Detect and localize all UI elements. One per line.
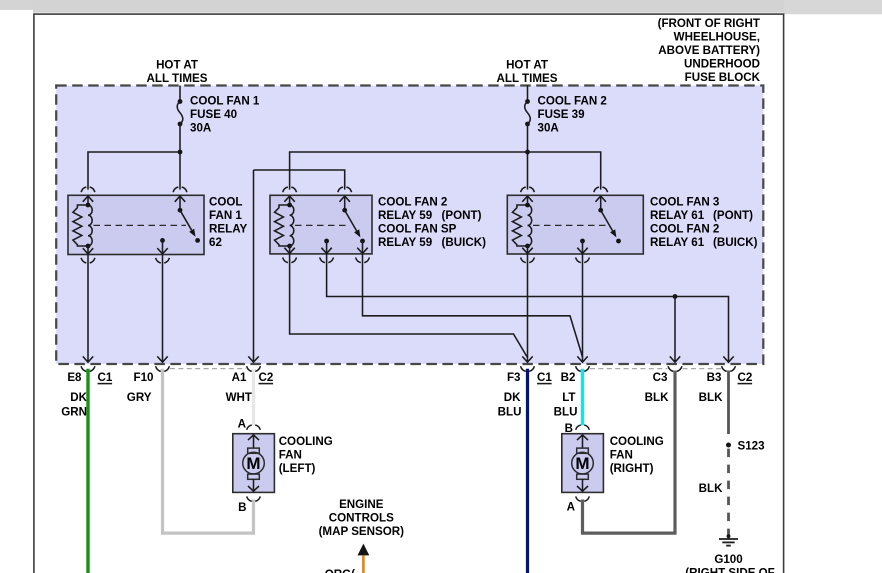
- svg-text:COOL: COOL: [209, 196, 243, 209]
- svg-text:ENGINE: ENGINE: [339, 498, 384, 511]
- svg-text:30A: 30A: [538, 121, 560, 134]
- wire relay62 contact to F10: [162, 240, 164, 362]
- svg-text:M: M: [575, 454, 589, 473]
- motor M1 cooling fan left: [233, 434, 275, 493]
- relay61 coil pin top: [521, 187, 526, 192]
- relay61 coil: [512, 205, 527, 246]
- svg-text:B: B: [565, 422, 573, 435]
- svg-text:62: 62: [209, 236, 222, 249]
- wire BLK from right fan A to C3: [583, 371, 676, 534]
- node S123: [726, 443, 731, 448]
- wire relay59 coil to F3: [290, 246, 528, 358]
- relay59 common pin top: [338, 187, 343, 192]
- wire DK BLU from F3: [526, 369, 529, 573]
- node fuse39 junction: [525, 150, 530, 155]
- svg-text:S123: S123: [738, 439, 766, 452]
- svg-text:FAN: FAN: [279, 448, 302, 461]
- svg-text:FUSE 40: FUSE 40: [190, 108, 237, 121]
- svg-text:RELAY 59: RELAY 59: [378, 209, 433, 222]
- relay59 NC contact node: [324, 239, 329, 244]
- svg-text:FUSE 39: FUSE 39: [538, 108, 586, 121]
- terminal C3 connector: [668, 366, 673, 371]
- svg-text:RELAY 61: RELAY 61: [650, 209, 705, 222]
- svg-text:UNDERHOOD: UNDERHOOD: [684, 57, 760, 70]
- svg-text:BLU: BLU: [498, 405, 522, 418]
- svg-text:C1: C1: [98, 371, 113, 384]
- svg-text:COOL FAN 2: COOL FAN 2: [538, 95, 607, 108]
- svg-text:HOT AT: HOT AT: [506, 59, 548, 72]
- svg-text:G100: G100: [714, 553, 742, 566]
- svg-text:(RIGHT): (RIGHT): [610, 462, 654, 475]
- wire DK GRN from E8: [86, 369, 89, 573]
- relay61 common pin top: [594, 187, 599, 192]
- svg-text:GRY: GRY: [127, 391, 152, 404]
- wire fuse39 branch to relay59 coil: [290, 152, 528, 190]
- fuse F39 COOL FAN 2 FUSE 39 30A: [525, 99, 530, 104]
- terminal A1 connector: [247, 366, 252, 371]
- svg-text:COOL FAN 1: COOL FAN 1: [190, 95, 260, 108]
- svg-text:BLK: BLK: [699, 482, 723, 495]
- relay59 coil pin top: [283, 187, 288, 192]
- svg-text:FAN: FAN: [610, 448, 633, 461]
- relay62 coil pin top: [81, 187, 86, 192]
- wire LT BLU from B2 to right fan B: [581, 369, 584, 426]
- svg-text:RELAY 61: RELAY 61: [650, 236, 705, 249]
- relay59 coil: [275, 205, 290, 246]
- svg-text:ABOVE BATTERY): ABOVE BATTERY): [658, 44, 760, 57]
- connector C2 dashed grouping line (right): [590, 368, 668, 370]
- svg-text:C2: C2: [738, 371, 753, 384]
- arrow to engine controls: [358, 544, 370, 556]
- svg-text:COOL FAN 2: COOL FAN 2: [650, 222, 719, 235]
- svg-text:LT: LT: [562, 391, 575, 404]
- svg-text:DK: DK: [70, 391, 87, 404]
- svg-text:BLU: BLU: [554, 405, 578, 418]
- svg-text:(PONT): (PONT): [713, 209, 753, 222]
- relay62 NC contact node: [160, 238, 165, 243]
- terminal B3 connector: [722, 366, 727, 371]
- svg-text:F3: F3: [507, 371, 521, 384]
- svg-text:30A: 30A: [190, 121, 212, 134]
- wire A1 riser: [253, 170, 255, 362]
- wire relay61 contact to B2: [582, 241, 584, 362]
- svg-text:(BUICK): (BUICK): [442, 236, 487, 249]
- ground G100: [727, 534, 731, 538]
- svg-text:DK: DK: [504, 391, 521, 404]
- wire BLK from B3 to S123: [727, 371, 730, 435]
- left fan pin B connector: [247, 496, 252, 501]
- svg-text:(RIGHT SIDE OF: (RIGHT SIDE OF: [685, 566, 775, 573]
- wire fuse39 to relay61 coil: [527, 124, 529, 190]
- svg-text:A1: A1: [232, 371, 247, 384]
- relay62 switch: [178, 208, 183, 213]
- svg-text:(MAP SENSOR): (MAP SENSOR): [319, 525, 405, 538]
- svg-text:ORG(: ORG(: [325, 568, 355, 573]
- terminal B2 connector: [576, 366, 581, 371]
- svg-text:(PONT): (PONT): [442, 209, 482, 222]
- svg-text:A: A: [238, 418, 247, 431]
- svg-text:CONTROLS: CONTROLS: [329, 512, 394, 525]
- wire relay59 NO to B2: [363, 241, 583, 357]
- svg-text:COOL FAN SP: COOL FAN SP: [378, 222, 457, 235]
- svg-text:(FRONT OF RIGHT: (FRONT OF RIGHT: [658, 17, 760, 30]
- connector C2 dashed grouping line (left): [170, 368, 246, 370]
- relay61 mech dashed link: [533, 224, 606, 226]
- svg-text:FAN 1: FAN 1: [209, 209, 242, 222]
- svg-text:COOLING: COOLING: [610, 435, 664, 448]
- wire fuse39 branch to relay61 common: [528, 152, 601, 190]
- svg-text:RELAY 59: RELAY 59: [378, 236, 433, 249]
- svg-text:(BUICK): (BUICK): [713, 236, 758, 249]
- wire fuse 40 feed: [179, 86, 181, 100]
- relay59 switch: [342, 208, 347, 213]
- svg-text:HOT AT: HOT AT: [156, 59, 198, 72]
- wire fuse40 branch to relay62 coil: [88, 152, 180, 190]
- svg-text:C1: C1: [537, 371, 552, 384]
- svg-text:WHT: WHT: [226, 391, 252, 404]
- wire to B3: [723, 356, 733, 362]
- svg-text:ALL TIMES: ALL TIMES: [497, 72, 558, 85]
- svg-text:B3: B3: [707, 371, 722, 384]
- svg-text:WHEELHOUSE,: WHEELHOUSE,: [674, 31, 760, 44]
- browser chrome top bar: [0, 0, 882, 10]
- wire GRY from F10 to left fan B: [163, 369, 254, 533]
- svg-text:F10: F10: [134, 371, 154, 384]
- node fuse40 junction: [178, 150, 183, 155]
- wire fuse 39 feed: [527, 86, 529, 100]
- relay62 coil: [73, 205, 88, 246]
- relay62 mech dashed link: [94, 224, 187, 226]
- underhood fuse block (dashed box): [56, 86, 763, 365]
- wire WHT from A1 to left fan A: [252, 369, 255, 426]
- wire to C3: [674, 297, 676, 363]
- node C3 branch junction: [673, 294, 678, 299]
- svg-text:E8: E8: [67, 371, 82, 384]
- svg-text:FUSE BLOCK: FUSE BLOCK: [685, 71, 761, 84]
- wire relay61 coil to F3: [527, 246, 529, 362]
- svg-text:C2: C2: [259, 371, 274, 384]
- svg-text:RELAY: RELAY: [209, 222, 247, 235]
- relay 61 box: [507, 195, 643, 254]
- wire fuse40 to relay62 common: [179, 124, 181, 190]
- wire BLK dashed from S123 to G100: [727, 449, 730, 535]
- svg-text:M: M: [246, 454, 260, 473]
- wire relay62 coil to E8: [87, 246, 89, 362]
- motor M2 cooling fan right: [562, 434, 604, 493]
- relay61 switch: [598, 208, 603, 213]
- svg-text:B: B: [238, 501, 246, 514]
- svg-text:A: A: [567, 501, 576, 514]
- wire A1 riser to relay59 common: [254, 170, 345, 190]
- terminal F10 connector: [156, 366, 161, 371]
- svg-text:(LEFT): (LEFT): [279, 462, 316, 475]
- svg-text:BLK: BLK: [699, 391, 723, 404]
- wire ORG to MAP sensor: [362, 555, 365, 573]
- svg-text:COOL FAN 3: COOL FAN 3: [650, 196, 720, 209]
- wire relay59 contact bus to C3 and B3: [327, 241, 729, 362]
- relay 62 box: [68, 195, 204, 254]
- terminal F3 connector: [521, 366, 526, 371]
- terminal E8 connector: [81, 366, 86, 371]
- svg-text:ALL TIMES: ALL TIMES: [147, 72, 208, 85]
- svg-text:GRN: GRN: [61, 405, 87, 418]
- svg-text:COOLING: COOLING: [279, 435, 333, 448]
- relay 59 box: [270, 195, 372, 254]
- right fan pin A connector: [576, 496, 581, 501]
- svg-text:C3: C3: [653, 371, 668, 384]
- svg-text:B2: B2: [561, 371, 576, 384]
- relay59 mech dashed link: [295, 224, 349, 226]
- svg-text:COOL FAN 2: COOL FAN 2: [378, 196, 447, 209]
- svg-text:BLK: BLK: [645, 391, 669, 404]
- relay62 common pin top: [173, 187, 178, 192]
- relay61 NC contact node: [580, 239, 585, 244]
- fuse F40 COOL FAN 1 FUSE 40 30A: [178, 99, 183, 104]
